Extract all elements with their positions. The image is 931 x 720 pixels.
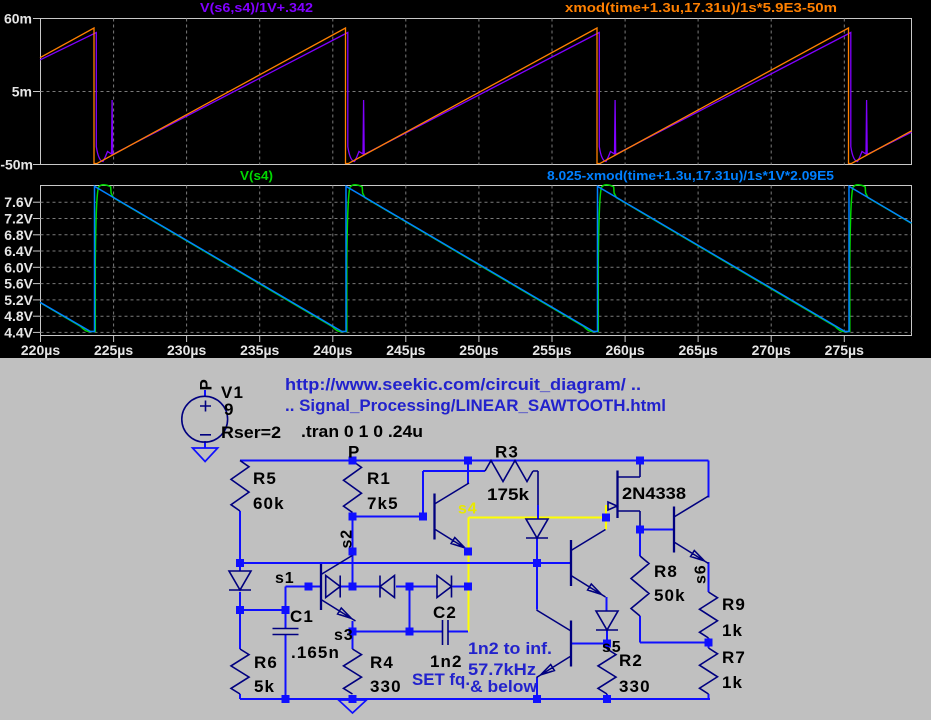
svg-text:.tran 0 1 0 .24u: .tran 0 1 0 .24u <box>301 422 423 441</box>
svg-text:60m: 60m <box>4 11 32 27</box>
svg-text:230µs: 230µs <box>167 342 206 358</box>
svg-text:265µs: 265µs <box>679 342 718 358</box>
svg-text:5m: 5m <box>12 84 32 100</box>
svg-text:C1: C1 <box>290 607 314 626</box>
svg-text:275µs: 275µs <box>825 342 864 358</box>
svg-text:9: 9 <box>224 400 235 419</box>
svg-text:R2: R2 <box>619 651 643 670</box>
svg-text:6.8V: 6.8V <box>4 227 33 243</box>
svg-text:7k5: 7k5 <box>367 494 399 513</box>
svg-text:225µs: 225µs <box>94 342 133 358</box>
svg-text:P: P <box>348 443 360 462</box>
svg-text:R4: R4 <box>370 653 394 672</box>
svg-text:235µs: 235µs <box>240 342 279 358</box>
svg-text:R9: R9 <box>722 595 746 614</box>
svg-text:R8: R8 <box>654 562 678 581</box>
svg-text:R1: R1 <box>367 469 391 488</box>
svg-text:7.6V: 7.6V <box>4 194 33 210</box>
svg-text:V(s4): V(s4) <box>240 168 273 183</box>
svg-text:xmod(time+1.3u,17.31u)/1s*5.9E: xmod(time+1.3u,17.31u)/1s*5.9E3-50m <box>565 0 837 15</box>
svg-text:60k: 60k <box>253 494 285 513</box>
svg-text:R5: R5 <box>253 469 277 488</box>
svg-text:270µs: 270µs <box>752 342 791 358</box>
svg-text:s6: s6 <box>693 564 710 584</box>
svg-text:220µs: 220µs <box>21 342 60 358</box>
svg-text:5k: 5k <box>254 677 275 696</box>
svg-text:250µs: 250µs <box>459 342 498 358</box>
svg-text:C2: C2 <box>433 603 457 622</box>
svg-text:.165n: .165n <box>291 643 340 662</box>
svg-text:8.025-xmod(time+1.3u,17.31u)/1: 8.025-xmod(time+1.3u,17.31u)/1s*1V*2.09E… <box>547 168 834 183</box>
svg-text:s4: s4 <box>458 501 478 518</box>
svg-text:Rser=2: Rser=2 <box>221 423 281 442</box>
svg-text:-50m: -50m <box>0 157 33 173</box>
svg-text:5.2V: 5.2V <box>4 292 33 308</box>
svg-text:s2: s2 <box>339 529 356 549</box>
svg-text:175k: 175k <box>487 485 530 504</box>
svg-text:1k: 1k <box>722 621 743 640</box>
svg-text:6.0V: 6.0V <box>4 259 33 275</box>
svg-text:4.8V: 4.8V <box>4 308 33 324</box>
svg-text:R7: R7 <box>722 648 746 667</box>
svg-text:1n2 to inf.: 1n2 to inf. <box>468 639 552 658</box>
svg-text:R3: R3 <box>495 443 519 462</box>
svg-text:330: 330 <box>619 677 651 696</box>
svg-text:245µs: 245µs <box>386 342 425 358</box>
svg-text:1n2: 1n2 <box>430 652 463 671</box>
svg-text:1k: 1k <box>722 673 743 692</box>
svg-text:330: 330 <box>370 677 402 696</box>
svg-text:s3: s3 <box>334 627 354 644</box>
svg-text:6.4V: 6.4V <box>4 243 33 259</box>
svg-text:s1: s1 <box>275 570 295 587</box>
svg-text:255µs: 255µs <box>532 342 571 358</box>
svg-text:260µs: 260µs <box>605 342 644 358</box>
svg-text:5.6V: 5.6V <box>4 276 33 292</box>
svg-text:.. Signal_Processing/LINEAR_SA: .. Signal_Processing/LINEAR_SAWTOOTH.htm… <box>285 396 666 415</box>
svg-text:V(s6,s4)/1V+.342: V(s6,s4)/1V+.342 <box>200 0 313 15</box>
svg-text:http://www.seekic.com/circuit_: http://www.seekic.com/circuit_diagram/ .… <box>285 375 641 394</box>
svg-text:P: P <box>197 379 216 390</box>
svg-text:R6: R6 <box>254 653 278 672</box>
svg-text:240µs: 240µs <box>313 342 352 358</box>
svg-text:4.4V: 4.4V <box>4 324 33 340</box>
svg-text:& below: & below <box>470 677 538 696</box>
svg-text:50k: 50k <box>654 586 686 605</box>
svg-text:2N4338: 2N4338 <box>622 484 686 503</box>
svg-text:7.2V: 7.2V <box>4 210 33 226</box>
svg-text:SET fq.: SET fq. <box>412 670 470 689</box>
svg-text:s5: s5 <box>602 639 622 656</box>
